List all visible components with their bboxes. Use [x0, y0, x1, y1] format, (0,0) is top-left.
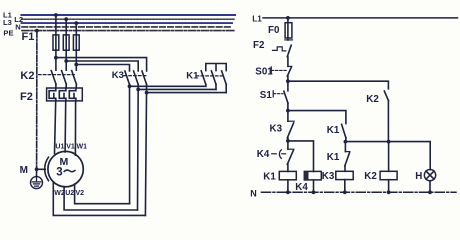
wire branch to K3 pole2: [66, 61, 138, 71]
wire below fuses to K2: [55, 50, 57, 70]
wire motor W2 down: [53, 182, 145, 216]
svg-text:K1: K1: [327, 125, 340, 136]
svg-text:U1: U1: [55, 143, 64, 150]
svg-text:K3: K3: [112, 70, 124, 81]
node K3 pole1 bottom: [128, 84, 132, 88]
wire motor U2 down: [64, 187, 137, 211]
node tap L3: [74, 21, 78, 25]
svg-text:K3: K3: [322, 171, 335, 182]
wire F2 to motor U1: [55, 101, 56, 154]
svg-text:K1: K1: [327, 152, 340, 163]
node K3 pole3 bottom: [145, 91, 149, 95]
motor frame PE arc: [45, 157, 49, 180]
node branch3: [74, 63, 78, 67]
wire F2 to motor W1: [74, 101, 76, 155]
earth electrode symbol: [31, 177, 43, 189]
contactor K1 pole1: [201, 71, 206, 86]
mech link K2: [39, 74, 75, 76]
wire F2 to motor V1: [64, 101, 67, 152]
bus L1: [22, 14, 236, 16]
svg-text:K2: K2: [20, 70, 34, 82]
wire frame link: [37, 168, 46, 170]
node tap L1: [54, 13, 58, 17]
svg-text:K4: K4: [257, 149, 270, 160]
svg-text:N: N: [15, 23, 20, 32]
contactor K2 pole3: [72, 71, 77, 84]
contactor K3 pole2: [134, 71, 139, 210]
svg-text:F1: F1: [22, 31, 35, 43]
wire branch to K3 pole1: [76, 65, 129, 72]
svg-text:M: M: [20, 165, 28, 176]
svg-text:F2: F2: [20, 91, 33, 103]
mech link K1: [196, 75, 223, 77]
wire to earth: [36, 169, 38, 176]
svg-text:W1: W1: [77, 143, 88, 150]
wire K2 to F2: [55, 84, 57, 88]
node K3 coil N: [343, 190, 347, 194]
node K2 coil tap: [387, 140, 391, 144]
svg-text:F0: F0: [268, 25, 280, 36]
svg-text:V1: V1: [66, 143, 75, 150]
aux contact K3 (NC): [287, 121, 294, 138]
bus L3: [22, 22, 233, 24]
svg-text:K3: K3: [270, 124, 283, 135]
svg-text:PE: PE: [3, 29, 13, 38]
wire node3 to K4 coil: [288, 141, 314, 172]
svg-text:L1: L1: [252, 14, 262, 23]
fuse F1 pole3: [73, 35, 79, 50]
wire node2 to K1 branch: [288, 111, 346, 124]
motor M1: [48, 151, 83, 186]
aux contact K1 (NC interlock): [345, 142, 350, 166]
contactor K2 pole1: [51, 71, 56, 84]
aux contact K1 (NO): [342, 124, 346, 141]
coil K4 (timer): [304, 171, 321, 192]
contactor K1 pole3: [222, 71, 227, 93]
svg-text:N: N: [250, 188, 256, 198]
F2 heater element 1: [49, 88, 56, 101]
bus N control: [262, 191, 457, 193]
overload contact F2 (NC): [273, 40, 293, 57]
node K2 coil N: [387, 190, 391, 194]
start button S1 (NO): [273, 91, 288, 103]
node 3: [286, 139, 290, 143]
wire K4 contact to K1 coil: [287, 164, 289, 171]
lamp H: [424, 169, 435, 192]
node K4 coil N: [312, 190, 316, 194]
stop button S01 (NC): [271, 66, 291, 76]
star bridge of K1: [206, 64, 226, 71]
wire S01-node1: [287, 76, 289, 91]
node tap PE: [35, 29, 39, 33]
bus PE: [22, 30, 234, 32]
node 2: [286, 109, 290, 113]
wire F2-S01: [287, 57, 289, 66]
svg-text:V2: V2: [76, 190, 85, 197]
wire motor V2 down: [75, 184, 130, 204]
overload relay F2 box: [47, 88, 83, 101]
svg-text:3: 3: [56, 167, 62, 179]
wire phase3 drop: [75, 23, 77, 35]
coil K1: [279, 171, 296, 192]
wire phase1 drop: [55, 15, 57, 35]
bus N: [22, 26, 231, 28]
svg-text:K1: K1: [263, 172, 276, 183]
wire link K3-K1 pole3: [147, 92, 227, 94]
fuse F1 pole1: [53, 35, 59, 50]
svg-text:K1: K1: [186, 71, 199, 82]
bus L2: [22, 18, 235, 20]
selfhold contact K2 (NO): [384, 91, 388, 142]
timed contact K4 (NC delayed): [272, 149, 294, 164]
svg-text:S1: S1: [260, 90, 273, 101]
bus L1 control: [263, 17, 458, 19]
node 1: [286, 79, 290, 83]
contactor K1 pole2: [211, 71, 216, 90]
svg-text:S01: S01: [255, 66, 273, 77]
wire branch to K3 pole3: [56, 58, 147, 71]
node H N: [428, 190, 432, 194]
node L1 tap: [286, 16, 290, 20]
coil K3: [336, 171, 353, 192]
coil K2: [380, 142, 397, 193]
node K1 coil N: [286, 190, 290, 194]
F2 heater element 3: [69, 88, 76, 101]
wire selfhold branch: [288, 81, 389, 89]
node branch2: [64, 59, 68, 63]
fuse F1 pole2: [63, 35, 69, 50]
node 4: [344, 140, 348, 144]
fuse F0: [285, 18, 292, 40]
contactor K3 pole1: [125, 71, 130, 204]
svg-text:K2: K2: [366, 94, 379, 105]
svg-text:L3: L3: [3, 18, 12, 27]
F2 heater element 2: [59, 88, 66, 101]
svg-text:K4: K4: [295, 182, 308, 193]
svg-text:W2: W2: [54, 190, 65, 197]
node branch1: [54, 56, 58, 60]
contactor K2 pole2: [62, 71, 67, 84]
svg-text:H: H: [415, 171, 422, 182]
wire link K3-K1 pole1: [130, 85, 206, 87]
motor tilde: [64, 170, 76, 172]
node tap L2: [64, 17, 68, 21]
wire K3-node3: [287, 138, 289, 149]
svg-text:U2: U2: [65, 190, 74, 197]
wire phase2 drop: [65, 19, 67, 35]
wire S1-node2: [287, 103, 289, 121]
wire K1 NC to K3 coil: [344, 166, 346, 171]
wire node4 to H: [345, 142, 430, 170]
svg-text:F2: F2: [253, 40, 265, 51]
node M frame: [35, 167, 39, 171]
svg-text:K2: K2: [364, 171, 377, 182]
node K3 pole2 bottom: [136, 88, 140, 92]
wire link K3-K1 pole2: [138, 88, 216, 90]
contactor K3 pole3: [142, 71, 147, 215]
mech link K3: [124, 75, 146, 77]
wire PE drop to motor: [36, 31, 38, 170]
